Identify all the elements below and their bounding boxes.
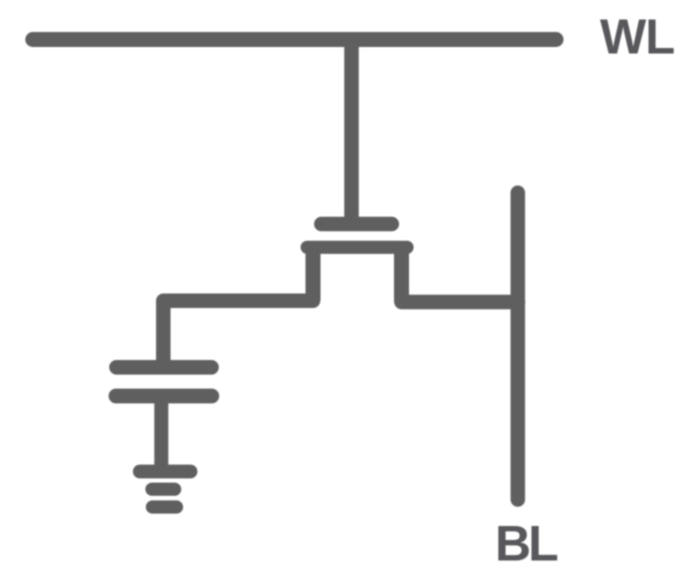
capacitor C1 bottom plate (116, 389, 212, 404)
wire capacitor to ground (154, 400, 168, 466)
capacitor C1 top plate (117, 360, 212, 375)
ground bar 3 (bottom) (152, 500, 176, 513)
transistor Q1 source lead (left drop) (306, 250, 321, 299)
transistor Q1 drain lead (right drop) (394, 250, 409, 301)
wire drain to bit line (402, 295, 519, 310)
wire BL bit line (vertical rail) (511, 193, 526, 500)
ground bar 1 (top, widest) (140, 465, 191, 479)
wire gate lead from WL to transistor gate (344, 42, 359, 220)
transistor Q1 channel bar (307, 241, 407, 254)
wire source to capacitor (with corner down) (163, 301, 313, 362)
svg-text:BL: BL (495, 516, 557, 572)
svg-text:WL: WL (600, 11, 674, 65)
wire WL word line (horizontal rail) (33, 32, 556, 47)
ground bar 2 (middle) (152, 483, 175, 496)
transistor Q1 gate bar (321, 217, 392, 232)
